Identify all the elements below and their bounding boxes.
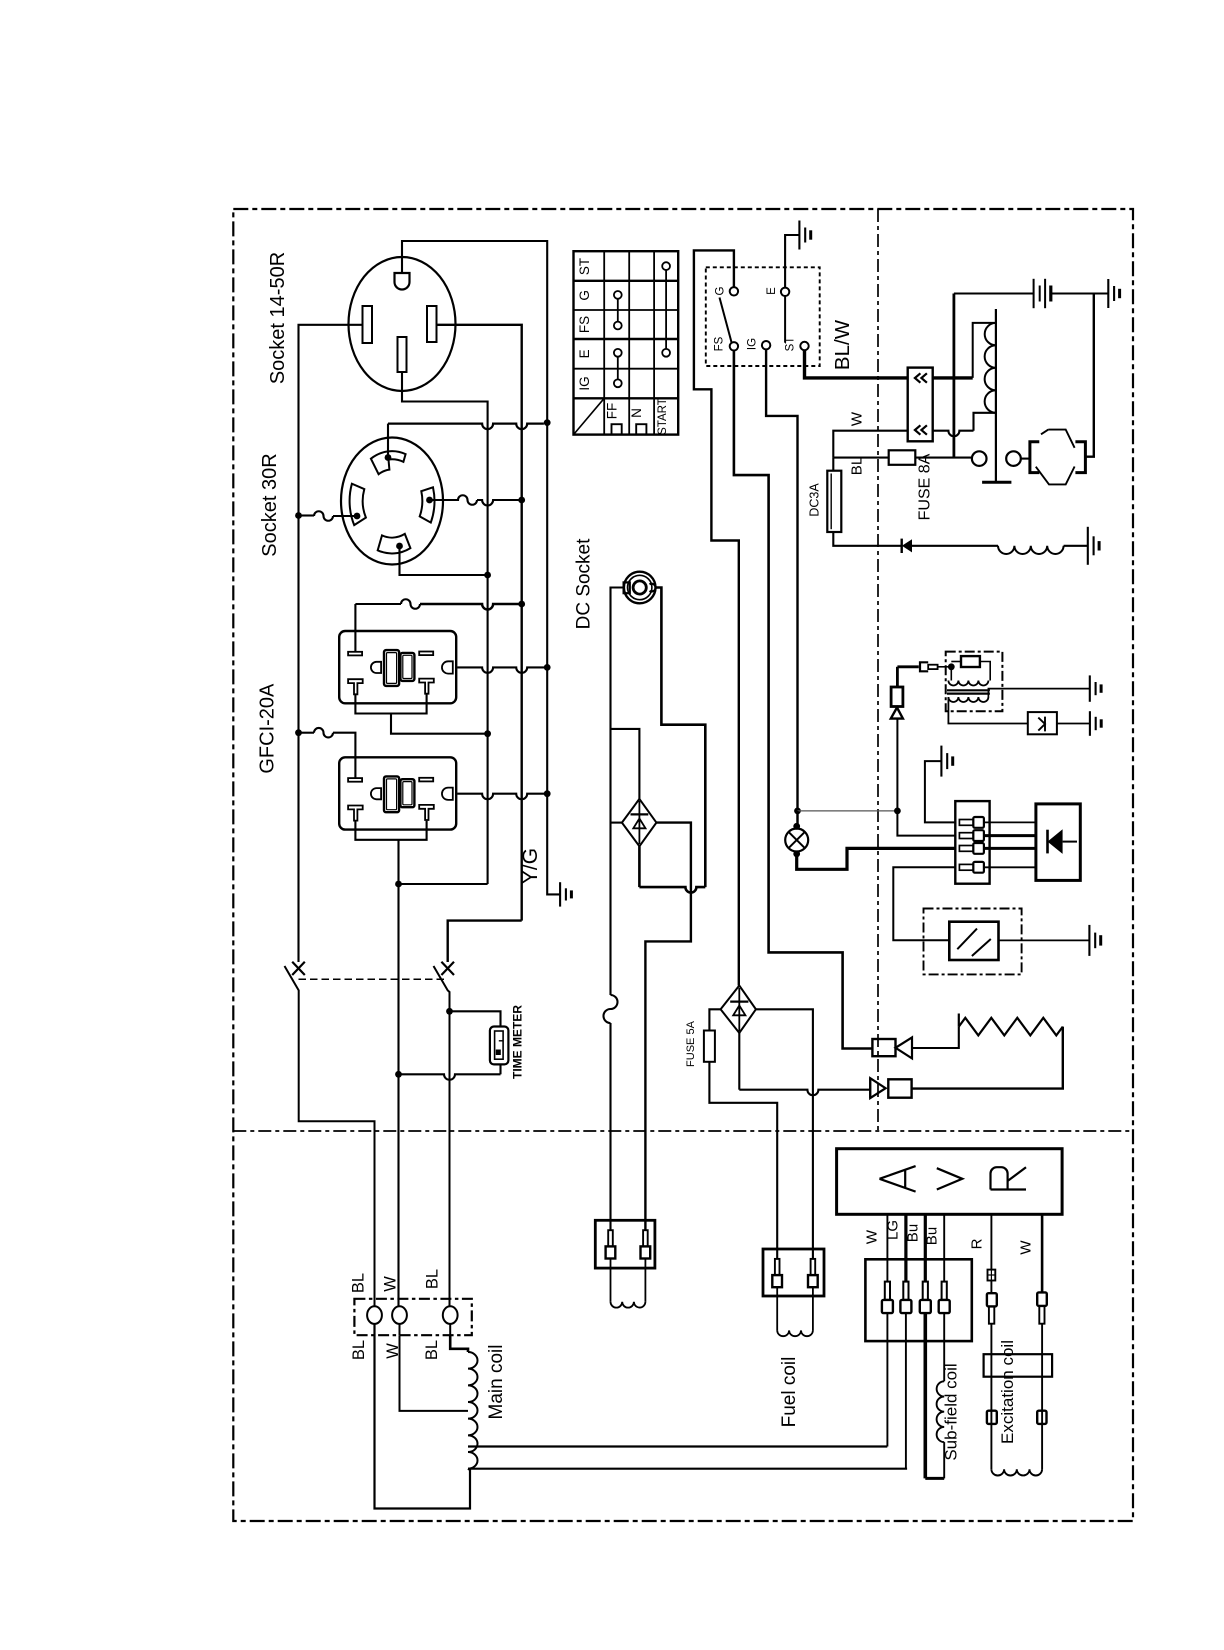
wire fuse 5A to fuel connector [709, 1062, 777, 1259]
svg-text:W: W [864, 1229, 881, 1244]
svg-text:G: G [577, 290, 592, 301]
wire 14-50R ground to top rail [402, 241, 547, 423]
wire time meter bottom [499, 1064, 501, 1074]
socket 14-50R left slot [363, 306, 373, 343]
solenoid valve 1 triangle [896, 1037, 913, 1058]
wire 14-50R center slot down rail [402, 372, 488, 884]
GFCI 1 lower-left T pin [348, 679, 363, 694]
fuse 8A body [889, 450, 916, 465]
GFCI 2 reset button [384, 776, 399, 812]
wire 14-50R left slot to left rail [299, 325, 363, 962]
wire rectifier to fuse 5A [709, 1009, 720, 1030]
svg-text:FS: FS [577, 316, 592, 333]
AVR wire Bu1 [924, 1214, 927, 1281]
indicator lamp [785, 829, 808, 852]
ground oil sensor [1088, 925, 1090, 956]
wire diode to charge coil [912, 545, 998, 547]
breaker CB1 [292, 962, 305, 975]
socket 30R slot bottom [378, 534, 411, 554]
socket 30R top slot wire [387, 424, 389, 458]
fuse 5A body [704, 1031, 715, 1062]
wire 14-50R right slot down rail [437, 325, 522, 921]
resistor right link [980, 662, 990, 681]
wire DC socket right [656, 588, 706, 888]
wire DC3A bottom to diode [833, 532, 901, 546]
spark gap electrode 2 [1006, 451, 1021, 466]
GFCI 1 left D-hole [371, 662, 381, 673]
border frame [233, 209, 1133, 1521]
wire feed breaker CB2 [448, 921, 522, 962]
GFCI 2 test button [400, 779, 414, 807]
svg-text:DC3A: DC3A [808, 483, 822, 517]
junction IG lamp [794, 808, 801, 815]
wire lamp bottom to pin3 [797, 848, 957, 869]
R wire segment [990, 1281, 992, 1294]
resistor zigzag [959, 1018, 1063, 1036]
ignition coil core line [995, 309, 997, 482]
mini connector pin3 [959, 846, 973, 852]
AVR box [837, 1149, 1063, 1215]
main coil output 1 [468, 1445, 887, 1447]
oil sensor diagonals [957, 929, 977, 950]
svg-text:DC Socket: DC Socket [574, 538, 595, 630]
svg-text:BL/W: BL/W [831, 319, 854, 370]
sub-field coil bar [923, 1313, 927, 1478]
wire battery horizontal [954, 292, 1034, 294]
wire coil to ground [1064, 545, 1088, 547]
ground E [798, 221, 800, 250]
terminal BL2 stub [449, 1324, 451, 1335]
socket 14-50R body [349, 257, 456, 391]
gen connector wires below [886, 1313, 888, 1446]
svg-text:IG: IG [577, 376, 592, 390]
GFCI 2 lower-left T pin [348, 806, 363, 821]
svg-text:FS: FS [714, 336, 726, 351]
excitation coil winding [991, 1469, 1042, 1475]
wire GFCI-2 feed [314, 728, 333, 738]
DC socket left tab [624, 582, 630, 593]
socket 30R slot right [420, 487, 435, 522]
svg-text:FUSE 8A: FUSE 8A [917, 453, 934, 520]
svg-text:Main coil: Main coil [486, 1345, 507, 1420]
AVR letter R [991, 1167, 1027, 1189]
diode box [1036, 804, 1080, 881]
wire battery feed vertical [953, 294, 956, 458]
fuel pin 2 [811, 1259, 816, 1275]
wire GFCI-2 bottom to center rail [399, 883, 488, 885]
mini connector box [955, 801, 989, 884]
wire E to ground [785, 235, 799, 288]
table contact START ST-E [662, 262, 670, 270]
socket 30R left slot wire [333, 515, 356, 517]
wire fuel rectifier right [756, 1009, 813, 1259]
GFCI-2 right wire [457, 794, 547, 800]
wire BLW through connector to coil top tap [933, 376, 973, 379]
gen pin 2 [903, 1282, 908, 1300]
svg-text:START: START [657, 398, 669, 435]
terminal BL-1 [367, 1306, 382, 1324]
mini connector pin2 [959, 833, 973, 839]
DC socket symbol [624, 572, 656, 604]
svg-text:LG: LG [885, 1220, 902, 1240]
socket 30R right slot wire [430, 495, 478, 505]
GFCI 2 right D-hole [442, 788, 453, 800]
DC coil pin 2 [643, 1230, 648, 1246]
AVR letter A [880, 1166, 916, 1192]
ignition coil base bar [982, 481, 1011, 484]
wire resistor down to valve2 [912, 1027, 1063, 1089]
solenoid valve 2 triangle [870, 1078, 885, 1098]
diode D1 [902, 539, 912, 552]
charge coil unit dash-dot box [946, 652, 1003, 712]
svg-text:BL: BL [350, 1273, 368, 1293]
ground charge unit lower [1089, 711, 1091, 736]
socket 30R slot top [371, 451, 406, 474]
terminal strip dash-dot box [354, 1299, 471, 1335]
svg-text:ST: ST [577, 258, 592, 275]
GFCI outlet 2 body [339, 757, 456, 829]
GFCI 1 lower-right T pin [419, 679, 434, 694]
socket 30R bottom slot wire [400, 546, 488, 575]
svg-text:N: N [629, 408, 644, 418]
GFCI-1 right wire [457, 667, 547, 673]
wire battery to engine [1085, 294, 1093, 457]
excitation plug bar [984, 1354, 1053, 1377]
svg-text:E: E [577, 349, 592, 358]
ground regulator [940, 746, 942, 777]
DC socket right tab [650, 584, 656, 592]
svg-text:E: E [766, 287, 778, 295]
rectifier diamond D2 [622, 799, 657, 846]
svg-text:Excitation coil: Excitation coil [998, 1340, 1017, 1444]
wire pin2 to diode box [984, 834, 1036, 837]
connector arrow 1 [915, 373, 927, 382]
ground charge unit upper [1089, 675, 1091, 701]
W2 bullet connector [1037, 1292, 1047, 1306]
sub-field coil winding [937, 1381, 945, 1442]
table column labels [612, 424, 622, 434]
ignition coil winding [985, 323, 996, 413]
wire secondary left down [948, 697, 1027, 724]
main coil bottom return [375, 1324, 471, 1509]
switch contact ST [800, 342, 808, 350]
GFCI-1 bottom wires [355, 695, 426, 714]
key switch solid bracket wire G [694, 250, 739, 985]
wire check valve to ground [1057, 723, 1090, 725]
wire gap2 to engine [1021, 458, 1030, 460]
ground battery [1107, 279, 1109, 308]
svg-text:BL: BL [849, 457, 866, 475]
terminal W [392, 1306, 407, 1324]
transformer core [947, 689, 990, 691]
wire FS down [734, 351, 873, 1049]
engine outline [1036, 430, 1075, 485]
wire W to coil center tap [400, 1335, 469, 1411]
section divider horizontal dash-dot [233, 1130, 1133, 1132]
wire secondary to ground right [988, 689, 1089, 697]
wire plug to tap dot [938, 666, 952, 668]
GFCI 1 right D-hole [442, 661, 453, 673]
battery [1033, 279, 1035, 308]
svg-text:FUSE 5A: FUSE 5A [685, 1020, 697, 1067]
wire W from connector arrow2 [833, 431, 907, 458]
GFCI 2 top-left slot [348, 778, 362, 782]
fuel coil winding [776, 1287, 778, 1330]
socket 14-50R ground D slot [395, 273, 410, 290]
wire GFCI-1 feed [354, 604, 356, 651]
GFCI 1 test button [400, 653, 414, 681]
wire time meter top [450, 1011, 501, 1026]
link wire gray [798, 810, 898, 812]
socket 14-50R right slot [427, 306, 437, 342]
table contact OFF G-FS [614, 291, 622, 299]
wire rectifier right [645, 823, 691, 1231]
GFCI-2 bottom wires [355, 821, 426, 840]
wire DC3A top [832, 458, 834, 471]
sub-field coil bottom link [925, 1477, 944, 1480]
terminal BL-2 [443, 1306, 458, 1324]
R wire inline connector [988, 1270, 996, 1281]
GFCI outlet 1 body [339, 631, 456, 703]
mini connector pin1 [959, 820, 973, 826]
svg-text:Socket 14-50R: Socket 14-50R [267, 252, 289, 384]
svg-text:W: W [849, 411, 866, 426]
wire DC socket left [611, 588, 624, 996]
terminal W stub [399, 1324, 401, 1335]
ground Y/G [559, 882, 561, 906]
switch contact FS [730, 342, 738, 350]
GFCI 1 top-right slot [419, 652, 433, 656]
svg-text:ST: ST [785, 337, 797, 352]
socket 14-50R center slot [398, 337, 407, 372]
GFCI 2 lower-right T pin [419, 805, 434, 820]
svg-text:W: W [1018, 1240, 1035, 1255]
plug wire from unit [897, 665, 918, 668]
socket 30R body [341, 438, 443, 565]
svg-text:Sub-field coil: Sub-field coil [942, 1363, 961, 1460]
inductor charging coil [998, 546, 1064, 554]
breaker CB2 [441, 962, 454, 975]
svg-text:W: W [382, 1276, 400, 1292]
DC3A regulator body [827, 471, 841, 532]
wire fuse to spark gap [915, 457, 972, 459]
wire oil sensor to ground [999, 939, 1090, 941]
wire battery to ground [1051, 292, 1109, 294]
solenoid valve 1 box [872, 1039, 895, 1056]
wire rectifier left [611, 822, 622, 824]
fuel rectifier diamond D3 [721, 986, 756, 1034]
wire pin1 to diode box [984, 821, 1036, 823]
AVR wire Bu2 [943, 1214, 945, 1281]
svg-text:BL: BL [423, 1340, 441, 1360]
key switch dashed box [706, 267, 820, 366]
breaker link dashed [299, 978, 448, 980]
gen pin 1 [885, 1282, 890, 1300]
oil sensor body [949, 922, 998, 960]
wire rectifier bottom [638, 846, 641, 887]
table diagonal [574, 398, 605, 434]
AVR wire W2 [1041, 1214, 1044, 1292]
wire pin3 to diode box [984, 847, 1036, 850]
svg-text:Bu: Bu [905, 1224, 922, 1242]
table contact OFF E-IG [614, 349, 622, 357]
switch table grid [574, 251, 679, 434]
pin4 wire to oil sensor [893, 867, 956, 940]
oil sensor dash-dot box [924, 909, 1022, 975]
fuel coil connector box [763, 1249, 824, 1296]
DC coil pin 1 [608, 1230, 613, 1246]
wire lamp top [796, 811, 798, 829]
main coil winding [468, 1352, 478, 1469]
AVR wire W [886, 1214, 888, 1281]
wire IG down [766, 349, 797, 826]
wire arrow2 right to coil bottom tap [933, 431, 974, 437]
resistor spring start bar [958, 1014, 960, 1027]
DC coil connector box [595, 1220, 655, 1268]
wire Y/G to ground [547, 423, 560, 895]
excitation right wire [1041, 1324, 1043, 1470]
wire valve1 to resistor [912, 1027, 959, 1048]
svg-text:Bu: Bu [924, 1227, 941, 1245]
switch contact IG [762, 341, 770, 349]
switch contact E [781, 288, 789, 296]
secondary winding [948, 697, 988, 702]
excitation bullet left lower [987, 1411, 997, 1424]
wire G rail to fuel rectifier [738, 984, 740, 986]
svg-text:BL: BL [350, 1340, 368, 1360]
R bullet connector [987, 1293, 997, 1306]
section divider vertical dash-dot [877, 209, 879, 1131]
time meter body [490, 1027, 509, 1065]
GFCI 2 top-right slot [419, 778, 433, 782]
wire BL to fuse 8A [833, 457, 888, 459]
wire fuel rectifier bottom to valve [738, 1033, 740, 1090]
gen pin 4 [942, 1282, 947, 1300]
socket 30R slot left [350, 484, 366, 525]
switch blade G-FS [720, 298, 732, 343]
connector arrow 2 [915, 425, 927, 434]
svg-text:BL: BL [424, 1269, 442, 1289]
svg-text:FF: FF [605, 403, 620, 420]
wire pin4 to diode box [984, 866, 1036, 868]
solenoid valve 2 box [888, 1079, 911, 1097]
fuel pin 1 [775, 1259, 780, 1275]
main coil output 2 [468, 1468, 907, 1470]
mini connector pin4 [959, 864, 973, 870]
svg-text:R: R [969, 1238, 986, 1249]
generator connector box [865, 1259, 971, 1341]
connector housing [908, 368, 933, 442]
wire DC socket branch to rectifier [611, 729, 640, 799]
switch blade E-ST [784, 296, 786, 343]
ground charge coil [1087, 527, 1089, 565]
gen pin 3 [923, 1282, 928, 1300]
svg-text:Y/G: Y/G [519, 848, 542, 884]
excitation left wire [990, 1324, 992, 1470]
AVR letter V [937, 1168, 963, 1189]
svg-text:TIME METER: TIME METER [511, 1005, 525, 1079]
switch contact G [730, 287, 738, 295]
GFCI 1 reset button [384, 650, 399, 686]
svg-text:IG: IG [747, 338, 759, 350]
pin1 ground wire [925, 761, 956, 822]
GFCI 2 left D-hole [371, 788, 381, 799]
svg-text:Socket 30R: Socket 30R [259, 453, 281, 556]
check valve box [1028, 712, 1057, 734]
svg-text:GFCI-20A: GFCI-20A [257, 683, 279, 774]
engine right bracket [1075, 442, 1085, 473]
engine left bracket [1030, 442, 1039, 473]
wire BL2 to main coil top [450, 1335, 468, 1352]
surge triangle [891, 708, 903, 719]
excitation bullet right lower [1037, 1411, 1046, 1424]
charge unit resistor [961, 656, 980, 667]
wire surge to link [897, 719, 956, 836]
AVR wire R [990, 1214, 992, 1269]
diode box symbol [1048, 829, 1063, 854]
plug symbol [920, 662, 928, 671]
surge fuse body [891, 687, 903, 707]
wire plug down to junction [896, 667, 899, 687]
svg-text:G: G [715, 286, 727, 295]
AVR wire LG [904, 1214, 907, 1281]
GFCI 1 top-left slot [348, 652, 362, 656]
svg-text:Fuel coil: Fuel coil [779, 1357, 800, 1428]
DC coil winding [610, 1259, 612, 1302]
spark gap electrode 1 [972, 451, 987, 466]
wire ST to connector BL/W [805, 350, 908, 378]
terminal BL1 stub [374, 1324, 376, 1335]
sub-field coil wire [943, 1313, 945, 1381]
primary winding [950, 667, 952, 681]
